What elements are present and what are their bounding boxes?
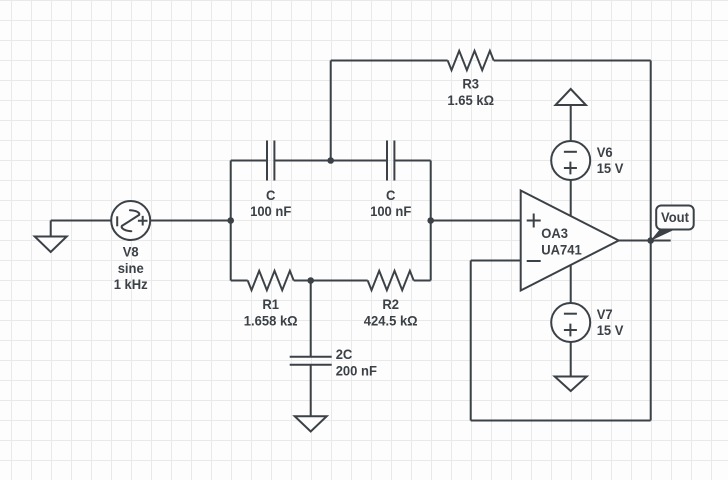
svg-text:Vout: Vout [661,210,689,226]
svg-text:V8: V8 [123,244,139,260]
svg-text:100 nF: 100 nF [250,204,291,220]
svg-text:100 nF: 100 nF [370,204,411,220]
svg-text:V6: V6 [597,144,613,160]
svg-text:sine: sine [118,260,144,276]
svg-text:15 V: 15 V [597,323,624,339]
svg-text:R2: R2 [382,297,399,313]
svg-text:1.65 kΩ: 1.65 kΩ [447,92,494,108]
svg-text:V7: V7 [597,306,613,322]
svg-text:C: C [386,187,396,203]
svg-text:R1: R1 [262,297,279,313]
svg-text:UA741: UA741 [541,242,582,258]
svg-text:R3: R3 [462,76,479,92]
svg-text:200 nF: 200 nF [336,363,377,379]
svg-text:1 kHz: 1 kHz [114,277,148,293]
svg-text:15 V: 15 V [597,161,624,177]
svg-text:424.5 kΩ: 424.5 kΩ [364,313,418,329]
svg-text:C: C [266,187,276,203]
svg-text:2C: 2C [336,347,353,363]
svg-text:OA3: OA3 [541,226,568,242]
svg-text:1.658 kΩ: 1.658 kΩ [244,313,298,329]
